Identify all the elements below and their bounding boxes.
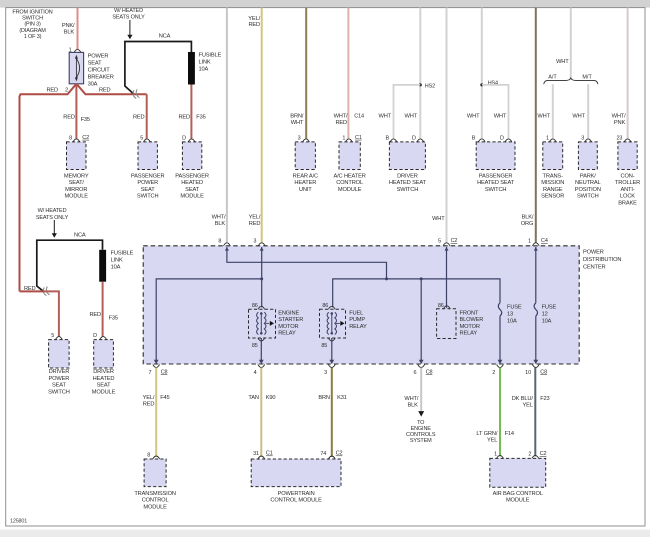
svg-text:FUSE: FUSE xyxy=(542,305,557,311)
label LT GRN/YEL xyxy=(476,431,497,443)
connector and arrow at PDC pin 3 xyxy=(258,243,265,246)
svg-text:RED: RED xyxy=(133,114,145,120)
pin 74 C2 of powertrain control module xyxy=(320,451,342,458)
svg-text:SWITCH: SWITCH xyxy=(485,187,507,193)
svg-text:FUSE: FUSE xyxy=(507,305,522,311)
svg-text:HEATED: HEATED xyxy=(93,376,115,382)
svg-text:23: 23 xyxy=(616,135,622,141)
label FUSIBLE LINK 10A (branch 1) xyxy=(199,53,222,73)
svg-text:3: 3 xyxy=(581,135,584,141)
svg-text:D: D xyxy=(182,135,186,141)
svg-text:31: 31 xyxy=(253,451,259,457)
label PASSENGER HEATED SEAT MODULE xyxy=(175,173,209,199)
svg-text:REAR A/C: REAR A/C xyxy=(293,173,318,179)
svg-text:SEAT: SEAT xyxy=(141,187,156,193)
svg-text:UNIT: UNIT xyxy=(299,187,312,193)
label FUSIBLE LINK 10A (branch 2) xyxy=(111,251,134,271)
svg-text:WHT: WHT xyxy=(537,114,550,120)
wire fuse 13 to exit 2 xyxy=(499,316,501,361)
svg-text:C1: C1 xyxy=(266,451,273,457)
label WHT/BLK (above PDC) xyxy=(212,215,226,227)
svg-text:FROM IGNITION: FROM IGNITION xyxy=(12,9,52,15)
wire RED breaker right branch to passenger power seat switch xyxy=(76,84,146,95)
wire RED breaker to memory seat module xyxy=(75,84,77,139)
svg-text:A/T: A/T xyxy=(548,75,557,81)
wire PNK/BLK from ignition switch xyxy=(77,8,79,50)
module DRIVER HEATED SEAT MODULE xyxy=(94,340,114,368)
svg-text:BLOWER: BLOWER xyxy=(460,317,484,323)
svg-text:2: 2 xyxy=(528,452,531,458)
svg-text:LT GRN/: LT GRN/ xyxy=(476,431,497,437)
connector at breaker pin 1 xyxy=(74,49,81,52)
wire BRN/WHT from top to rear A/C heater unit xyxy=(305,8,307,139)
svg-text:MODULE: MODULE xyxy=(143,505,167,511)
svg-text:NCA: NCA xyxy=(74,232,86,238)
wire RED breaker left branch down to heated-seats loop xyxy=(20,84,77,292)
svg-text:RED: RED xyxy=(178,114,190,120)
module PASSENGER HEATED SEAT MODULE xyxy=(182,142,201,170)
svg-text:W/ HEATED: W/ HEATED xyxy=(38,208,67,214)
label WHT/PNK xyxy=(612,114,626,126)
svg-text:3: 3 xyxy=(253,239,256,245)
svg-text:M/T: M/T xyxy=(582,75,592,81)
svg-text:85: 85 xyxy=(321,343,327,349)
svg-text:CONTROL MODULE: CONTROL MODULE xyxy=(270,498,322,504)
svg-text:(DIAGRAM: (DIAGRAM xyxy=(19,28,46,34)
svg-text:D: D xyxy=(93,333,97,339)
connector and arrow at PDC pin 1 xyxy=(532,243,539,246)
svg-text:W/ HEATED: W/ HEATED xyxy=(114,8,143,14)
svg-text:CONTROL: CONTROL xyxy=(142,498,169,504)
note FROM IGNITION SWITCH (PIN 3) (DIAGRAM 1 OF 3) xyxy=(12,9,52,40)
svg-text:ENGINE: ENGINE xyxy=(411,426,432,432)
inline connector black-red (branch 2) xyxy=(42,287,49,296)
svg-text:PNK/: PNK/ xyxy=(62,23,75,29)
fusible link 10A (branch 1) xyxy=(188,52,195,85)
wire PDC left bus to exit 7 xyxy=(156,279,262,362)
module POWERTRAIN CONTROL MODULE xyxy=(251,459,341,487)
svg-text:FUEL: FUEL xyxy=(349,310,363,316)
wire WHT/RED from top to A/C heater control module xyxy=(347,8,349,139)
wire BRN PDC exit 3 to powertrain control module xyxy=(331,368,333,458)
svg-text:POWER: POWER xyxy=(137,180,158,186)
label MEMORY SEAT/MIRROR MODULE xyxy=(64,173,89,199)
svg-text:1: 1 xyxy=(342,135,345,141)
pin 1 C1 of A/C heater control module xyxy=(342,135,361,142)
svg-text:SYSTEM: SYSTEM xyxy=(410,438,432,444)
pin 1 C4 entry of PDC xyxy=(528,238,548,245)
module DRIVER POWER SEAT SWITCH xyxy=(49,340,70,368)
svg-text:WHT/: WHT/ xyxy=(334,114,348,120)
annotation arrow down (left branch) xyxy=(52,220,57,238)
svg-text:(PIN 3): (PIN 3) xyxy=(24,22,41,28)
svg-text:HEATED SEAT: HEATED SEAT xyxy=(477,180,515,186)
module A/C HEATER CONTROL MODULE xyxy=(339,142,360,170)
svg-text:86: 86 xyxy=(252,303,258,309)
svg-text:DISTRIBUTION: DISTRIBUTION xyxy=(583,257,621,263)
svg-text:LOCK: LOCK xyxy=(620,194,635,200)
wire WHT from top to PDC pin 5 C2 xyxy=(446,8,448,243)
svg-text:1 OF 3): 1 OF 3) xyxy=(24,34,42,40)
svg-text:BRN/: BRN/ xyxy=(290,114,304,120)
svg-text:BLK: BLK xyxy=(407,403,418,409)
wire YEL/RED from top to PDC pin 3 xyxy=(261,8,263,243)
junction exit-6 tap on right bus xyxy=(420,277,423,280)
svg-text:7: 7 xyxy=(148,370,151,376)
connectors at powertrain control module xyxy=(258,456,265,459)
svg-text:RELAY: RELAY xyxy=(278,331,296,337)
connectors at driver heated seat switch xyxy=(390,139,397,142)
svg-text:10A: 10A xyxy=(111,265,121,271)
svg-text:ENGINE: ENGINE xyxy=(278,310,299,316)
svg-text:12: 12 xyxy=(542,312,548,318)
svg-text:NEUTRAL: NEUTRAL xyxy=(575,180,601,186)
wire BLK/ORG from top to PDC pin 1 C4 xyxy=(535,8,537,243)
svg-text:BLK/: BLK/ xyxy=(522,215,534,221)
connector at driver power seat switch xyxy=(56,337,63,340)
svg-text:FUSIBLE: FUSIBLE xyxy=(199,53,222,59)
label TRANSMISSION RANGE SENSOR xyxy=(541,173,564,199)
label REAR A/C HEATER UNIT xyxy=(293,173,318,193)
svg-text:TAN: TAN xyxy=(248,395,259,401)
svg-text:WHT/: WHT/ xyxy=(404,396,418,402)
label DRIVER HEATED SEAT MODULE xyxy=(92,369,116,395)
label FUSE 13 10A xyxy=(507,305,522,325)
svg-text:CIRCUIT: CIRCUIT xyxy=(88,67,111,73)
svg-text:D: D xyxy=(500,135,504,141)
svg-text:F35: F35 xyxy=(81,117,90,123)
svg-text:MOTOR: MOTOR xyxy=(460,324,480,330)
exit pin 7 C8 of PDC xyxy=(148,360,167,376)
svg-text:MEMORY: MEMORY xyxy=(64,173,89,179)
svg-text:10A: 10A xyxy=(542,319,552,325)
svg-text:CONTROL: CONTROL xyxy=(336,180,363,186)
relay FRONT BLOWER MOTOR RELAY xyxy=(437,309,456,339)
svg-text:1: 1 xyxy=(528,239,531,245)
svg-text:10A: 10A xyxy=(199,67,209,73)
label ENGINE STARTER MOTOR RELAY xyxy=(278,310,303,336)
svg-text:RED: RED xyxy=(143,402,155,408)
svg-text:CONTROLS: CONTROLS xyxy=(406,432,436,438)
wire LT GRN/YEL PDC exit 2 to air bag control module xyxy=(499,368,501,457)
connectors at air bag control module xyxy=(497,455,504,458)
svg-text:5: 5 xyxy=(51,333,54,339)
note W/ HEATED SEATS ONLY (top) xyxy=(112,8,145,21)
svg-text:HEATED SEAT: HEATED SEAT xyxy=(389,180,427,186)
exit pin 6 C8 of PDC xyxy=(413,360,432,376)
connector at controller anti-lock brake xyxy=(624,139,631,142)
svg-text:BLK: BLK xyxy=(64,29,75,35)
svg-text:STARTER: STARTER xyxy=(278,317,303,323)
svg-text:TROLLER: TROLLER xyxy=(615,180,640,186)
svg-text:SWITCH: SWITCH xyxy=(137,194,159,200)
svg-text:TO: TO xyxy=(417,420,425,426)
svg-text:NCA: NCA xyxy=(159,33,171,39)
svg-text:C2: C2 xyxy=(540,451,547,457)
label PASSENGER POWER SEAT SWITCH xyxy=(131,173,165,199)
svg-text:SEAT: SEAT xyxy=(52,383,67,389)
brace A/T M/T split xyxy=(544,78,598,84)
svg-text:POWER: POWER xyxy=(583,250,604,256)
svg-text:2: 2 xyxy=(65,87,68,93)
svg-text:1: 1 xyxy=(494,452,497,458)
svg-text:F35: F35 xyxy=(196,114,205,120)
wire TAN PDC exit 4 to powertrain control module xyxy=(260,368,262,458)
connector at A/C heater control module xyxy=(346,139,353,142)
connector at park/neutral position switch xyxy=(585,139,592,142)
relay ENGINE STARTER MOTOR RELAY xyxy=(249,309,276,338)
wire WHT branch HS4 to pin D xyxy=(482,85,509,139)
wire RED fusible link 2 to driver heated seat module xyxy=(102,282,104,337)
svg-text:BRN: BRN xyxy=(318,395,330,401)
svg-text:MODULE: MODULE xyxy=(64,194,88,200)
label AIR BAG CONTROL MODULE xyxy=(493,491,543,504)
svg-text:PASSENGER: PASSENGER xyxy=(175,173,209,179)
svg-text:8: 8 xyxy=(147,452,150,458)
svg-text:SEAT: SEAT xyxy=(88,60,103,66)
svg-text:MIRROR: MIRROR xyxy=(65,187,87,193)
wire RED fusible link to passenger heated seat module xyxy=(190,85,192,140)
module AIR BAG CONTROL MODULE xyxy=(490,458,546,487)
wire fuse 12 to exit 10 xyxy=(535,316,537,361)
svg-text:WHT: WHT xyxy=(379,114,392,120)
svg-text:PARK/: PARK/ xyxy=(580,173,596,179)
svg-text:DK BLU/: DK BLU/ xyxy=(512,396,534,402)
connector at transmission range sensor xyxy=(549,139,556,142)
svg-text:F23: F23 xyxy=(540,396,549,402)
svg-text:RED: RED xyxy=(46,88,58,94)
connector at passenger heated seat module xyxy=(188,139,195,142)
svg-text:SEATS ONLY: SEATS ONLY xyxy=(112,15,145,21)
svg-text:SEAT: SEAT xyxy=(97,383,112,389)
svg-text:HEATED: HEATED xyxy=(181,180,203,186)
svg-text:K90: K90 xyxy=(266,395,276,401)
wire DK BLU/YEL PDC exit 10 to air bag control module xyxy=(534,368,536,457)
svg-text:13: 13 xyxy=(507,312,513,318)
svg-text:SEAT: SEAT xyxy=(185,187,200,193)
node HS4 junction xyxy=(480,83,483,86)
label FUSE 12 10A xyxy=(542,305,557,325)
svg-text:YEL/: YEL/ xyxy=(248,16,260,22)
label YEL/RED (bottom) xyxy=(143,395,155,407)
svg-text:YEL: YEL xyxy=(522,403,532,409)
svg-text:6: 6 xyxy=(413,370,416,376)
svg-text:LINK: LINK xyxy=(199,60,211,66)
svg-text:RED: RED xyxy=(63,114,75,120)
svg-text:RED: RED xyxy=(89,312,101,318)
svg-text:A/C HEATER: A/C HEATER xyxy=(333,173,365,179)
fuse FUSE 12 10A xyxy=(534,303,537,316)
module DRIVER HEATED SEAT SWITCH xyxy=(389,142,425,170)
pin 8 C2 of memory seat mirror module xyxy=(69,135,89,142)
svg-text:SWITCH: SWITCH xyxy=(577,194,599,200)
wire WHT A/T branch to transmission range sensor xyxy=(552,84,554,139)
svg-text:C1: C1 xyxy=(355,135,362,141)
wire WHT/BLK PDC exit 6 to engine controls system xyxy=(420,368,422,412)
wire PDC pin 1 down to fuse 12 xyxy=(535,247,537,303)
svg-text:DRIVER: DRIVER xyxy=(397,173,418,179)
svg-text:AIR BAG CONTROL: AIR BAG CONTROL xyxy=(493,491,543,497)
label BLK/ORG (above PDC) xyxy=(521,215,534,227)
label DRIVER HEATED SEAT SWITCH xyxy=(389,173,427,193)
label PASSENGER HEATED SEAT SWITCH xyxy=(477,173,515,193)
power distribution center box xyxy=(143,246,579,364)
label YEL/RED (above PDC) xyxy=(249,215,261,227)
svg-text:RED: RED xyxy=(335,120,347,126)
svg-text:PUMP: PUMP xyxy=(349,317,365,323)
relay FUEL PUMP RELAY xyxy=(320,309,346,338)
svg-text:C8: C8 xyxy=(161,369,168,375)
svg-text:1: 1 xyxy=(546,135,549,141)
svg-text:C4: C4 xyxy=(541,238,548,244)
svg-text:BRAKE: BRAKE xyxy=(618,201,637,207)
svg-text:ORG: ORG xyxy=(521,221,534,227)
svg-text:3: 3 xyxy=(298,135,301,141)
wire PDC right bus xyxy=(333,279,500,307)
svg-text:POWER: POWER xyxy=(49,376,70,382)
wire NCA branch 1 (black) xyxy=(125,42,191,95)
svg-text:8: 8 xyxy=(218,239,221,245)
svg-text:LINK: LINK xyxy=(111,258,123,264)
wire fuel pump relay 85 to exit 3 xyxy=(331,338,333,362)
wire WHT/BLK from top to PDC pin 8 xyxy=(226,8,228,243)
svg-text:F35: F35 xyxy=(109,315,118,321)
label DRIVER POWER SEAT SWITCH xyxy=(48,369,70,395)
svg-text:C8: C8 xyxy=(426,369,433,375)
svg-text:DRIVER: DRIVER xyxy=(93,369,114,375)
svg-text:RANGE: RANGE xyxy=(543,187,563,193)
svg-text:BREAKER: BREAKER xyxy=(88,74,114,80)
junction pin3/left bus xyxy=(260,277,263,280)
svg-text:TRANSMISSION: TRANSMISSION xyxy=(134,491,176,497)
note TO ENGINE CONTROLS SYSTEM xyxy=(406,420,436,444)
wire WHT from top to driver heated seat switch pin D xyxy=(419,8,421,139)
svg-text:WHT: WHT xyxy=(291,120,304,126)
svg-text:ANTI-: ANTI- xyxy=(620,187,634,193)
svg-text:WHT: WHT xyxy=(432,216,445,222)
svg-text:FRONT: FRONT xyxy=(460,310,480,316)
svg-text:MODULE: MODULE xyxy=(338,187,362,193)
svg-text:C14: C14 xyxy=(354,114,364,120)
bottom grey strip xyxy=(0,530,650,537)
svg-text:C2: C2 xyxy=(451,238,458,244)
svg-text:SEAT/: SEAT/ xyxy=(69,180,85,186)
svg-text:WHT: WHT xyxy=(405,114,418,120)
label POWER SEAT CIRCUIT BREAKER 30A xyxy=(88,53,114,87)
note W/ HEATED SEATS ONLY (left) xyxy=(36,208,69,221)
svg-text:WHT: WHT xyxy=(494,114,507,120)
svg-text:MODULE: MODULE xyxy=(92,389,116,395)
node HS2 junction xyxy=(419,83,422,86)
svg-text:F14: F14 xyxy=(505,431,514,437)
svg-text:SEATS ONLY: SEATS ONLY xyxy=(36,215,69,221)
svg-text:YEL: YEL xyxy=(487,438,497,444)
svg-text:HEATER: HEATER xyxy=(294,180,316,186)
svg-text:10: 10 xyxy=(525,370,531,376)
svg-text:RELAY: RELAY xyxy=(349,324,367,330)
svg-text:8: 8 xyxy=(69,135,72,141)
module PARK/NEUTRAL POSITION SWITCH xyxy=(578,142,597,170)
svg-text:FUSIBLE: FUSIBLE xyxy=(111,251,134,257)
svg-text:K31: K31 xyxy=(337,395,347,401)
wire PDC pin 5 down to front blower relay xyxy=(446,247,448,308)
wire PDC pin 8 feed to relay bus xyxy=(227,247,387,279)
svg-text:C2: C2 xyxy=(336,451,343,457)
connector at passenger power seat switch xyxy=(144,139,151,142)
svg-text:HS2: HS2 xyxy=(425,83,435,89)
svg-text:TRANS-: TRANS- xyxy=(543,173,564,179)
svg-text:POWERTRAIN: POWERTRAIN xyxy=(278,491,315,497)
annotation arrow down (top branch) xyxy=(127,20,132,39)
wire NCA branch 2 (black) xyxy=(37,240,103,291)
svg-text:DRIVER: DRIVER xyxy=(49,369,70,375)
svg-text:85: 85 xyxy=(252,343,258,349)
wire RED loop to driver power seat switch xyxy=(20,290,45,292)
svg-text:C8: C8 xyxy=(540,369,547,375)
svg-text:5: 5 xyxy=(140,135,143,141)
svg-text:C2: C2 xyxy=(82,135,89,141)
top grey toolbar strip xyxy=(0,0,650,8)
svg-text:PASSENGER: PASSENGER xyxy=(131,173,165,179)
svg-text:WHT/: WHT/ xyxy=(612,114,626,120)
svg-text:RELAY: RELAY xyxy=(460,331,478,337)
svg-text:B: B xyxy=(472,135,476,141)
svg-text:125801: 125801 xyxy=(10,518,27,524)
wire WHT from top to A/T-M/T brace xyxy=(570,8,572,80)
label TRANSMISSION CONTROL MODULE xyxy=(134,491,176,511)
fuse FUSE 13 10A xyxy=(498,303,501,316)
module CONTROLLER ANTI-LOCK BRAKE xyxy=(618,142,637,170)
fusible link 10A (branch 2) xyxy=(99,250,106,282)
module TRANSMISSION CONTROL MODULE xyxy=(144,459,166,487)
svg-text:SWITCH: SWITCH xyxy=(22,16,43,22)
svg-text:PASSENGER: PASSENGER xyxy=(479,173,513,179)
wire PDC pin 3 down to engine starter relay xyxy=(261,247,263,307)
junction pin8 feed on right bus xyxy=(385,277,388,280)
svg-text:MODULE: MODULE xyxy=(180,194,204,200)
pin 2 C2 of air bag control module xyxy=(528,451,546,458)
connectors at passenger heated seat switch xyxy=(478,139,485,142)
svg-text:YEL/: YEL/ xyxy=(249,215,261,221)
svg-text:MODULE: MODULE xyxy=(506,498,530,504)
wire WHT from top to passenger heated seat switch pin B xyxy=(481,8,483,139)
wire WHT branch HS2 to pin B xyxy=(394,85,421,139)
svg-text:74: 74 xyxy=(320,451,326,457)
label BRN/WHT xyxy=(290,114,304,126)
svg-text:WHT/: WHT/ xyxy=(212,215,226,221)
svg-text:D: D xyxy=(412,135,416,141)
svg-text:POSITION: POSITION xyxy=(575,187,601,193)
svg-text:SENSOR: SENSOR xyxy=(541,194,564,200)
exit pin 4 of PDC xyxy=(254,360,265,376)
inline connector black-red (branch 1) xyxy=(132,89,139,98)
svg-text:30A: 30A xyxy=(88,81,98,87)
connector and arrow at PDC pin 5 xyxy=(443,243,450,246)
label WHT/RED xyxy=(334,114,348,126)
label POWERTRAIN CONTROL MODULE xyxy=(270,491,322,504)
svg-text:PNK: PNK xyxy=(614,120,626,126)
label POWER DISTRIBUTION CENTER xyxy=(583,250,621,271)
module PASSENGER POWER SEAT SWITCH xyxy=(138,142,157,170)
wire engine starter relay 85 to exit 4 xyxy=(260,338,262,362)
svg-text:2: 2 xyxy=(492,370,495,376)
arrow to engine controls system xyxy=(418,411,424,417)
wire right bus tap to exit 6 xyxy=(420,279,422,362)
svg-text:MOTOR: MOTOR xyxy=(278,324,298,330)
module REAR A/C HEATER UNIT xyxy=(295,142,315,170)
connector at rear A/C heater unit xyxy=(303,139,310,142)
exit pin 3 of PDC xyxy=(324,360,335,376)
